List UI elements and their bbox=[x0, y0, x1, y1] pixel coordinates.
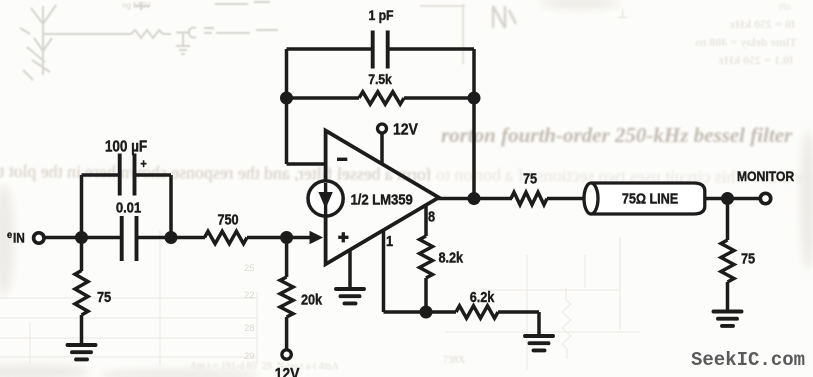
svg-text:rorton fourth-order 250-kHz be: rorton fourth-order 250-kHz bessel filte… bbox=[441, 123, 793, 147]
svg-text:1 pF: 1 pF bbox=[369, 7, 394, 23]
svg-text:8.2k: 8.2k bbox=[439, 250, 464, 266]
svg-text:n8t: n8t bbox=[778, 2, 791, 13]
svg-text:75: 75 bbox=[97, 289, 111, 305]
svg-text:+: + bbox=[140, 157, 147, 171]
svg-text:738X: 738X bbox=[443, 355, 466, 366]
svg-text:25: 25 bbox=[244, 263, 255, 274]
svg-text:750: 750 bbox=[217, 212, 238, 228]
svg-text:7.5k: 7.5k bbox=[368, 71, 392, 87]
svg-text:ng MSV: ng MSV bbox=[122, 1, 151, 10]
svg-text:1/2 LM359: 1/2 LM359 bbox=[351, 191, 413, 208]
svg-text:22: 22 bbox=[244, 290, 255, 301]
svg-text:75Ω LINE: 75Ω LINE bbox=[622, 191, 678, 207]
svg-text:28: 28 bbox=[244, 323, 255, 334]
svg-text:6.2k: 6.2k bbox=[470, 289, 495, 305]
svg-text:MONITOR: MONITOR bbox=[737, 168, 795, 184]
svg-text:f0.1 = 250 kHz: f0.1 = 250 kHz bbox=[718, 53, 793, 67]
svg-text:100 µF: 100 µF bbox=[105, 139, 147, 156]
svg-text:IN: IN bbox=[13, 230, 25, 246]
svg-text:0.01: 0.01 bbox=[116, 199, 142, 216]
svg-text:1: 1 bbox=[386, 233, 393, 249]
svg-text:⊥: ⊥ bbox=[617, 6, 628, 21]
svg-text:12V: 12V bbox=[275, 365, 300, 377]
svg-text:20k: 20k bbox=[301, 292, 322, 308]
svg-text:f0 = 250 kHz: f0 = 250 kHz bbox=[729, 17, 795, 31]
svg-text:SeekIC.com: SeekIC.com bbox=[691, 349, 805, 371]
svg-text:75: 75 bbox=[523, 171, 537, 187]
svg-text:e: e bbox=[7, 230, 13, 242]
svg-text:12V: 12V bbox=[393, 121, 418, 139]
svg-text:Time delay = 408 ns: Time delay = 408 ns bbox=[695, 35, 797, 49]
svg-text:8: 8 bbox=[428, 209, 435, 225]
svg-text:75: 75 bbox=[741, 251, 755, 267]
